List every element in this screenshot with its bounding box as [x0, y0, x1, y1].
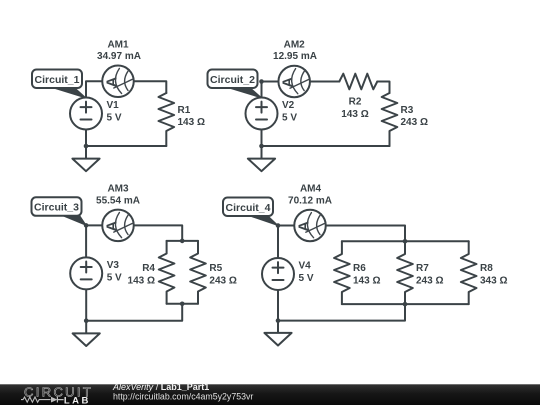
resistor R5: [190, 241, 206, 304]
junction dot: [180, 239, 185, 244]
ground: [248, 146, 275, 171]
svg-text:Circuit_3: Circuit_3: [34, 202, 79, 214]
junction dot: [276, 318, 281, 323]
wire: [134, 225, 182, 241]
wire: [167, 303, 198, 305]
resistor R7: [397, 241, 413, 304]
wire: [86, 225, 102, 257]
svg-text:http://circuitlab.com/c4am5y2y: http://circuitlab.com/c4am5y2y753vr: [113, 391, 253, 401]
svg-text:R6: R6: [353, 263, 366, 274]
wire: [86, 145, 166, 147]
voltage source V4: [262, 258, 294, 290]
svg-text:70.12 mA: 70.12 mA: [288, 196, 332, 207]
resistor R2: [339, 74, 377, 90]
wire: [86, 304, 182, 321]
svg-text:143 Ω: 143 Ω: [353, 276, 380, 287]
svg-text:5 V: 5 V: [299, 273, 314, 284]
svg-text:Circuit_4: Circuit_4: [226, 202, 271, 214]
svg-text:V4: V4: [299, 261, 312, 272]
wire: [278, 304, 405, 321]
resistor R6: [334, 241, 350, 304]
svg-text:R4: R4: [142, 263, 155, 274]
svg-text:R1: R1: [178, 105, 191, 116]
resistor R3: [382, 93, 398, 146]
ammeter AM1: [102, 66, 134, 98]
svg-text:243 Ω: 243 Ω: [416, 276, 443, 287]
resistor R1: [159, 93, 175, 146]
ground: [264, 321, 291, 346]
svg-text:143 Ω: 143 Ω: [178, 117, 205, 128]
junction dot: [259, 144, 264, 149]
wire: [167, 240, 198, 242]
svg-text:V3: V3: [107, 260, 120, 271]
node Circuit_4 flag: [223, 198, 278, 226]
svg-text:R3: R3: [401, 105, 414, 116]
wire: [262, 82, 279, 99]
wire: [86, 81, 102, 98]
svg-text:5 V: 5 V: [107, 113, 122, 124]
svg-text:143 Ω: 143 Ω: [128, 276, 155, 287]
node Circuit_1 flag: [32, 70, 86, 99]
svg-text:AM3: AM3: [107, 184, 129, 195]
svg-text:AM4: AM4: [300, 184, 322, 195]
svg-text:LAB: LAB: [64, 395, 91, 405]
wire: [261, 130, 263, 146]
junction dot: [403, 239, 408, 244]
node Circuit_3 flag: [32, 197, 87, 225]
ammeter AM2: [278, 66, 310, 98]
junction dot: [180, 302, 185, 307]
svg-text:R2: R2: [349, 97, 362, 108]
junction dot: [276, 223, 281, 228]
junction dot: [403, 302, 408, 307]
svg-text:243 Ω: 243 Ω: [209, 276, 236, 287]
svg-text:143 Ω: 143 Ω: [341, 109, 368, 120]
resistor R8: [461, 241, 477, 304]
svg-text:AM1: AM1: [107, 40, 129, 51]
wire: [262, 145, 390, 147]
wire: [85, 130, 87, 146]
wire: [85, 289, 87, 320]
svg-text:V2: V2: [282, 100, 295, 111]
voltage source V3: [70, 257, 102, 289]
svg-text:55.54 mA: 55.54 mA: [96, 196, 140, 207]
wire: [342, 240, 469, 242]
wire: [326, 226, 405, 242]
svg-text:5 V: 5 V: [107, 272, 122, 283]
wire: [277, 290, 279, 321]
resistor R4: [159, 241, 175, 304]
svg-text:R7: R7: [416, 263, 429, 274]
ground: [73, 321, 100, 346]
svg-text:12.95 mA: 12.95 mA: [273, 51, 317, 62]
junction dot: [84, 144, 89, 149]
wire: [134, 81, 166, 93]
voltage source V2: [246, 98, 278, 130]
node Circuit_2 flag: [208, 70, 262, 99]
ground: [72, 146, 99, 171]
svg-text:34.97 mA: 34.97 mA: [97, 51, 141, 62]
wire: [377, 82, 389, 94]
footer CircuitLab logo: [21, 384, 93, 406]
wire: [342, 303, 469, 305]
svg-text:R5: R5: [209, 263, 222, 274]
junction dot: [259, 79, 264, 84]
svg-text:Circuit_2: Circuit_2: [210, 74, 255, 86]
voltage source V1: [70, 98, 102, 130]
svg-text:243 Ω: 243 Ω: [401, 117, 428, 128]
wire: [278, 226, 294, 259]
junction dot: [84, 223, 89, 228]
junction dot: [84, 318, 89, 323]
svg-text:R8: R8: [480, 263, 493, 274]
wire: [310, 81, 339, 83]
footer bar: [0, 384, 540, 405]
svg-text:AM2: AM2: [284, 40, 306, 51]
ammeter AM3: [102, 210, 134, 242]
ammeter AM4: [294, 210, 326, 242]
svg-text:V1: V1: [107, 100, 120, 111]
svg-text:Circuit_1: Circuit_1: [35, 74, 80, 86]
svg-text:343 Ω: 343 Ω: [480, 276, 507, 287]
svg-text:5 V: 5 V: [282, 113, 297, 124]
